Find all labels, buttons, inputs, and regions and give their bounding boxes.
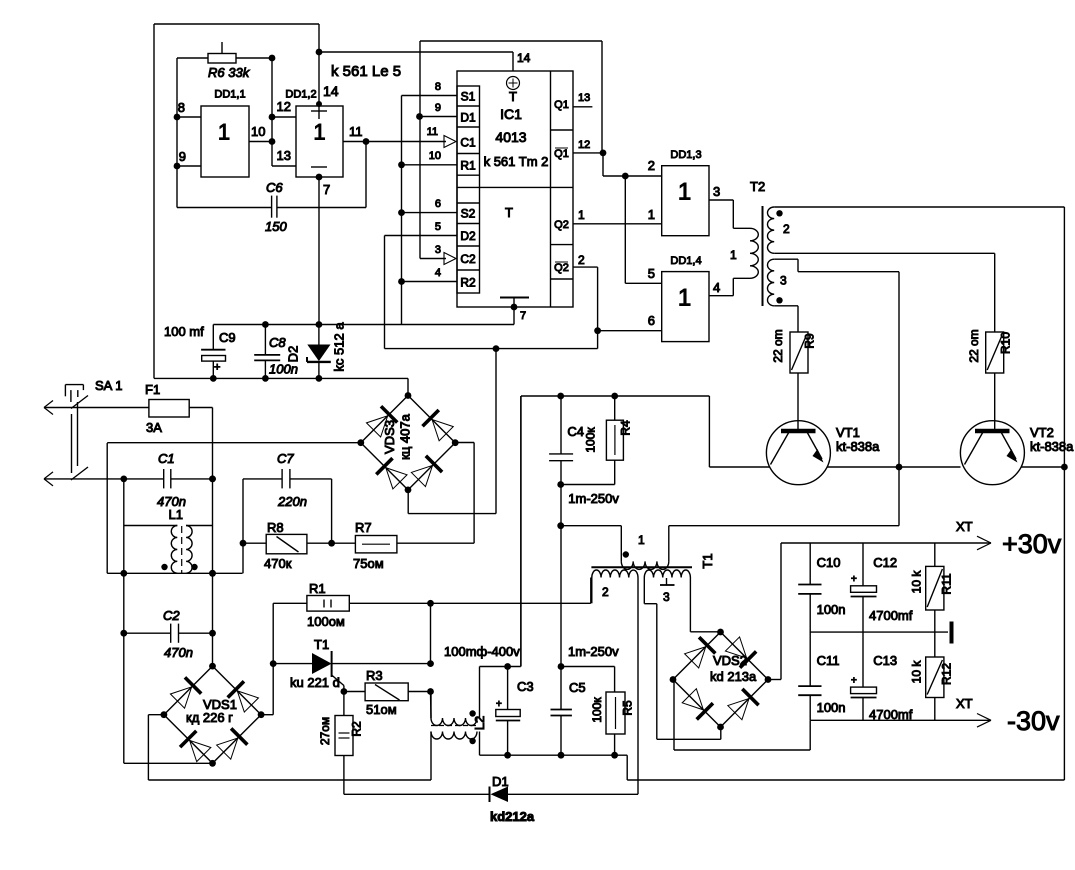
svg-text:C9: C9 xyxy=(219,330,236,345)
svg-text:T: T xyxy=(509,89,517,104)
svg-text:1: 1 xyxy=(730,248,737,262)
svg-text:470n: 470n xyxy=(157,494,186,509)
svg-text:DD1,4: DD1,4 xyxy=(670,255,701,267)
svg-text:8: 8 xyxy=(178,100,185,115)
svg-text:L1: L1 xyxy=(169,507,183,522)
svg-text:Q2: Q2 xyxy=(554,262,569,274)
svg-text:10 k: 10 k xyxy=(910,570,924,594)
svg-text:R3: R3 xyxy=(366,668,383,683)
svg-text:R2: R2 xyxy=(460,276,476,290)
svg-text:VDS3: VDS3 xyxy=(382,420,397,454)
svg-text:470к: 470к xyxy=(264,556,292,571)
svg-text:11: 11 xyxy=(427,126,438,138)
svg-text:C1: C1 xyxy=(460,136,476,150)
svg-text:1: 1 xyxy=(678,179,691,206)
svg-text:XT: XT xyxy=(956,696,973,711)
svg-text:Q1: Q1 xyxy=(554,99,569,111)
svg-text:кц 407а: кц 407а xyxy=(398,413,413,459)
svg-text:22 om: 22 om xyxy=(967,329,981,362)
svg-text:R6 33k: R6 33k xyxy=(208,65,251,80)
svg-text:3A: 3A xyxy=(146,420,162,435)
svg-text:C6: C6 xyxy=(266,180,283,195)
svg-text:C8: C8 xyxy=(269,335,286,350)
svg-text:k 561 Le 5: k 561 Le 5 xyxy=(331,63,401,80)
svg-text:+: + xyxy=(214,362,220,374)
svg-text:C2: C2 xyxy=(163,608,180,623)
svg-text:13: 13 xyxy=(277,148,291,163)
svg-text:10: 10 xyxy=(251,124,265,139)
svg-text:DD1,1: DD1,1 xyxy=(214,89,245,101)
svg-text:51ом: 51ом xyxy=(366,702,397,717)
svg-text:R9: R9 xyxy=(803,333,817,349)
svg-text:R1: R1 xyxy=(309,581,326,596)
svg-text:1: 1 xyxy=(678,285,691,312)
svg-text:4013: 4013 xyxy=(495,129,526,145)
svg-text:C12: C12 xyxy=(873,555,897,570)
svg-text:T: T xyxy=(505,205,513,220)
svg-text:F1: F1 xyxy=(145,382,160,397)
svg-text:220n: 220n xyxy=(277,494,307,509)
svg-text:C11: C11 xyxy=(817,653,840,668)
svg-text:2: 2 xyxy=(602,585,609,599)
svg-text:R8: R8 xyxy=(267,520,284,535)
svg-text:9: 9 xyxy=(179,149,186,164)
svg-text:kd 213a: kd 213a xyxy=(710,669,757,684)
svg-text:4700mf: 4700mf xyxy=(869,707,913,722)
svg-text:Q1: Q1 xyxy=(554,148,569,160)
svg-text:C2: C2 xyxy=(460,252,476,266)
svg-text:C13: C13 xyxy=(873,653,897,668)
svg-text:22 om: 22 om xyxy=(771,329,785,362)
svg-text:100n: 100n xyxy=(817,700,846,715)
svg-text:C5: C5 xyxy=(569,680,586,695)
svg-text:D1: D1 xyxy=(460,111,476,125)
svg-text:R4: R4 xyxy=(619,420,633,436)
svg-text:27ом: 27ом xyxy=(318,717,332,745)
svg-text:100mф-400v: 100mф-400v xyxy=(444,644,520,659)
svg-text:1m-250v: 1m-250v xyxy=(568,644,619,659)
svg-text:+30v: +30v xyxy=(1002,529,1062,559)
svg-text:T1: T1 xyxy=(314,637,329,652)
svg-text:R1: R1 xyxy=(460,159,476,173)
svg-text:ku 221 d: ku 221 d xyxy=(290,675,340,690)
svg-text:DD1,3: DD1,3 xyxy=(670,149,701,161)
svg-text:3: 3 xyxy=(663,590,670,604)
svg-text:R7: R7 xyxy=(355,520,372,535)
svg-text:1m-250v: 1m-250v xyxy=(568,491,619,506)
svg-text:12: 12 xyxy=(578,139,590,151)
svg-text:5: 5 xyxy=(648,266,655,281)
svg-text:100n: 100n xyxy=(269,362,298,377)
svg-text:13: 13 xyxy=(578,92,590,104)
svg-text:10 k: 10 k xyxy=(910,660,924,684)
svg-text:C7: C7 xyxy=(277,451,294,466)
svg-text:150: 150 xyxy=(265,219,287,234)
svg-text:5: 5 xyxy=(435,221,441,233)
svg-text:D2: D2 xyxy=(460,229,476,243)
svg-text:kt-838a: kt-838a xyxy=(1030,439,1074,454)
svg-text:S1: S1 xyxy=(461,90,476,104)
svg-text:T2: T2 xyxy=(750,179,765,194)
svg-text:4: 4 xyxy=(713,280,720,295)
svg-text:C1: C1 xyxy=(158,451,175,466)
svg-text:Q2: Q2 xyxy=(554,219,569,231)
svg-text:3: 3 xyxy=(435,244,441,256)
svg-text:C4: C4 xyxy=(567,424,584,439)
svg-text:VT2: VT2 xyxy=(1030,425,1054,440)
svg-text:2: 2 xyxy=(783,222,790,236)
svg-text:3: 3 xyxy=(713,184,720,199)
svg-text:1: 1 xyxy=(648,207,655,222)
svg-text:k 561 Tm 2: k 561 Tm 2 xyxy=(484,154,549,169)
svg-text:14: 14 xyxy=(323,83,339,99)
svg-text:S2: S2 xyxy=(461,207,476,221)
svg-text:10: 10 xyxy=(429,150,441,162)
svg-text:1: 1 xyxy=(218,120,230,145)
svg-text:T1: T1 xyxy=(700,553,715,568)
svg-text:4700mf: 4700mf xyxy=(869,608,913,623)
svg-text:1: 1 xyxy=(578,208,585,222)
svg-text:-30v: -30v xyxy=(1007,706,1060,736)
svg-text:+: + xyxy=(496,699,502,710)
svg-text:14: 14 xyxy=(517,51,531,65)
svg-text:VT1: VT1 xyxy=(836,425,860,440)
svg-text:9: 9 xyxy=(435,102,441,114)
svg-text:100к: 100к xyxy=(590,697,604,723)
svg-text:4: 4 xyxy=(435,267,441,279)
svg-text:7: 7 xyxy=(520,310,526,322)
svg-text:3: 3 xyxy=(780,274,787,288)
svg-text:R11: R11 xyxy=(940,573,954,594)
svg-text:kt-838a: kt-838a xyxy=(836,439,880,454)
svg-text:C3: C3 xyxy=(517,679,534,694)
svg-text:R12: R12 xyxy=(940,663,954,685)
svg-text:C10: C10 xyxy=(817,555,841,570)
svg-text:7: 7 xyxy=(323,182,330,197)
svg-text:IC1: IC1 xyxy=(500,106,522,122)
svg-text:100к: 100к xyxy=(584,427,598,453)
svg-text:D2: D2 xyxy=(286,346,301,363)
svg-text:6: 6 xyxy=(648,313,655,328)
svg-text:XT: XT xyxy=(956,519,973,534)
svg-text:11: 11 xyxy=(349,124,363,139)
svg-text:D1: D1 xyxy=(492,774,509,789)
svg-text:12: 12 xyxy=(277,99,291,114)
svg-text:R5: R5 xyxy=(621,700,635,716)
svg-text:SA 1: SA 1 xyxy=(95,378,122,393)
svg-text:+: + xyxy=(851,676,857,687)
svg-text:8: 8 xyxy=(435,81,441,93)
svg-text:R10: R10 xyxy=(999,332,1013,354)
svg-text:kc 512 a: kc 512 a xyxy=(332,322,347,372)
svg-text:100n: 100n xyxy=(817,602,846,617)
svg-text:2: 2 xyxy=(648,158,655,173)
svg-text:1: 1 xyxy=(313,120,325,145)
svg-text:+: + xyxy=(851,574,857,585)
svg-text:1: 1 xyxy=(638,533,645,547)
svg-text:R2: R2 xyxy=(350,721,364,737)
svg-text:100ом: 100ом xyxy=(307,614,345,629)
svg-text:kd212a: kd212a xyxy=(490,809,535,824)
svg-text:VDS2: VDS2 xyxy=(713,653,747,668)
svg-text:6: 6 xyxy=(435,198,441,210)
svg-text:100 mf: 100 mf xyxy=(164,324,204,339)
svg-text:75ом: 75ом xyxy=(353,556,384,571)
svg-text:470n: 470n xyxy=(164,645,193,660)
svg-text:2: 2 xyxy=(578,253,585,267)
svg-text:кд 226 г: кд 226 г xyxy=(186,710,233,725)
